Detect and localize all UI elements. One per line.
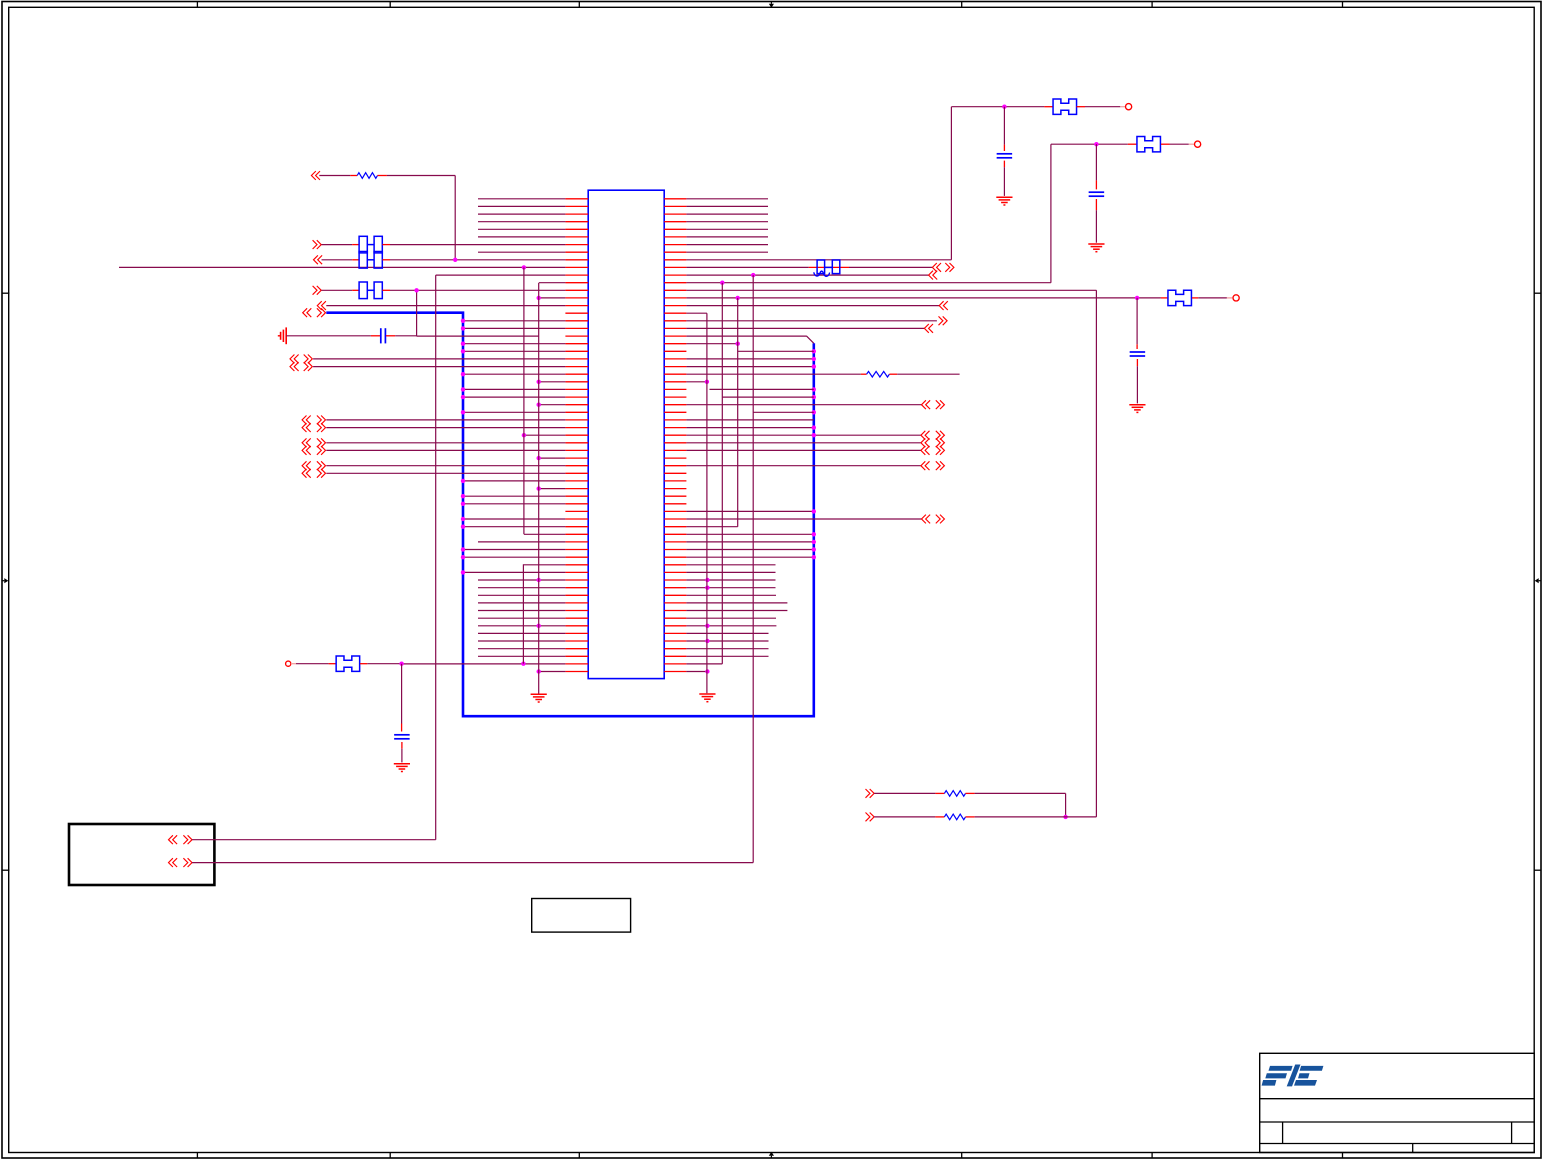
border left center arrow bbox=[2, 580, 4, 582]
border zone ticks top bbox=[196, 2, 198, 9]
ground for C2 bbox=[1088, 243, 1104, 245]
border right center arrow bbox=[1539, 580, 1541, 582]
off-page connector row n10 right bbox=[929, 271, 933, 280]
bus left connector chevron pair bbox=[303, 308, 307, 317]
ground for C1 bbox=[996, 196, 1012, 198]
title block row line 2 bbox=[1260, 1098, 1535, 1100]
wire vertical x523.4 lower bbox=[522, 564, 524, 663]
title block row line 3 bbox=[1260, 1121, 1535, 1123]
right bus junction dots bbox=[812, 349, 816, 353]
ground for C3 bbox=[1129, 404, 1145, 406]
net B output wire and terminal bbox=[1170, 143, 1189, 145]
border zone ticks left bbox=[2, 292, 9, 294]
box row2 wire to riser bbox=[192, 862, 753, 864]
off-page connector cluster rows n21 n22 bbox=[290, 355, 294, 364]
right row n9 wire segments (through beads) bbox=[686, 266, 808, 268]
net B riser x1050.9 bbox=[1050, 144, 1052, 283]
box row1 wire to riser bbox=[192, 839, 436, 841]
bus main thick blue bbox=[326, 313, 814, 717]
junction dots on right verticals mid bbox=[736, 342, 740, 346]
left row n18 wire (cap net) bbox=[417, 335, 539, 337]
ground for C5 bbox=[394, 763, 410, 765]
box port row2 chevrons bbox=[169, 858, 173, 867]
off-page connector row n14 chevron bbox=[317, 301, 321, 310]
border zone ticks bottom bbox=[196, 1153, 198, 1159]
wire vertical x523.9 upper bbox=[523, 267, 525, 534]
off-page connector row n12 bbox=[317, 286, 321, 295]
border bottom center arrow bbox=[770, 1156, 772, 1158]
off-page connector cluster rows n32 n33 bbox=[302, 438, 306, 447]
net B top wire bbox=[1051, 143, 1128, 145]
ferrite bead L2 bbox=[1128, 143, 1137, 145]
net A riser x951.4 bbox=[950, 107, 952, 260]
off-page connector pair row n42 right bbox=[922, 515, 926, 524]
wire vertical x539 (to left ground) bbox=[538, 283, 540, 694]
terminal circle bottom-left bbox=[286, 661, 291, 666]
off-page connector cluster rows n29 n30 bbox=[302, 416, 306, 425]
wire vertical x753.2 (row10 to box row2) bbox=[752, 275, 754, 863]
right vertical x707 dots bbox=[705, 578, 709, 582]
resistor R2 on row n23 bbox=[686, 373, 861, 375]
capacitor C4 series bbox=[380, 328, 382, 343]
off-page connector row n6 bbox=[317, 240, 321, 249]
net C (row n13) bead and terminal bbox=[1135, 296, 1139, 300]
off-page connector bottom right row2 bbox=[870, 813, 874, 822]
right ground symbol bbox=[699, 693, 715, 695]
ferrite bead pair A row n6 bbox=[359, 236, 367, 253]
box port row1 chevrons bbox=[169, 835, 173, 844]
left ground symbol bbox=[531, 693, 547, 695]
hierarchical block box bbox=[69, 824, 214, 885]
off-page connector (resistor net) bbox=[311, 171, 315, 180]
title block cell divider c bbox=[1412, 1144, 1414, 1153]
off-page connector cluster rows n35 n36 bbox=[302, 461, 306, 470]
title block row line 4 bbox=[1260, 1143, 1535, 1145]
bus entry diagonal bbox=[806, 336, 814, 344]
wire vertical x455.2 (resistor to row8) bbox=[454, 176, 456, 260]
title block outline bbox=[1260, 1053, 1535, 1152]
capacitor C1 bbox=[1003, 107, 1005, 145]
FIC logo bbox=[1269, 1066, 1293, 1071]
off-page connector row n17 right bbox=[924, 324, 928, 333]
wires to bead pair A bbox=[322, 244, 353, 246]
chassis ground symbol bbox=[278, 335, 281, 337]
border top center arrow bbox=[770, 2, 772, 4]
wire vertical x1096.4 (row n12 down to resistor net) bbox=[1095, 290, 1097, 817]
ferrite bead L3 bbox=[329, 663, 336, 665]
bead pair A output stubs bbox=[382, 244, 390, 246]
wire chassis to C4 bbox=[286, 335, 371, 337]
right short rows to bus bbox=[738, 350, 814, 352]
off-page connector pair row n27 right bbox=[922, 400, 926, 409]
left mid vertical junction dots x539 bbox=[537, 296, 541, 300]
off-page connector bottom right row1 bbox=[870, 789, 874, 798]
wire vertical x722.3 bbox=[721, 283, 723, 664]
ferrite bead L1 bbox=[1044, 106, 1053, 108]
title block cell divider a bbox=[1282, 1122, 1284, 1144]
right pin row wires bbox=[686, 198, 768, 200]
IC U1 body bbox=[588, 190, 664, 678]
off-page connector pair row n9 right bbox=[932, 263, 936, 272]
left pin row wires bbox=[478, 198, 565, 200]
right verticals top dots bbox=[751, 273, 755, 277]
left bus junction dots bbox=[461, 319, 465, 323]
ferrite bead pair B row n12 bbox=[359, 282, 367, 299]
resistor R3 bbox=[874, 792, 935, 794]
net A top wire bbox=[951, 106, 1044, 108]
wire R3 corner down bbox=[1065, 793, 1067, 817]
common-mode choke on row n9 bbox=[817, 260, 825, 274]
ferrite bead pair A row n8 bbox=[359, 252, 367, 269]
wire vertical x706.9 (to right ground) bbox=[706, 313, 708, 693]
border zone ticks right bbox=[1534, 292, 1541, 294]
wire vertical x416.6 (bead2 to cap) bbox=[416, 290, 418, 336]
wire to bead B bbox=[322, 289, 353, 291]
capacitor C5 bbox=[401, 664, 403, 724]
IC U1 left pin stubs bbox=[565, 198, 588, 200]
IC U1 right pin stubs bbox=[664, 198, 686, 200]
annotation rectangle bbox=[532, 899, 631, 933]
title block cell divider b bbox=[1511, 1122, 1513, 1144]
left vertical x524 dots bbox=[522, 265, 526, 269]
off-page connector row n14 right bbox=[939, 301, 943, 310]
off-page connector row n16 right bbox=[943, 316, 947, 325]
capacitor C2 bbox=[1095, 144, 1097, 180]
resistor R4 bbox=[874, 816, 935, 818]
wire vertical x435.7 (row10 to box) bbox=[435, 275, 437, 840]
off-page connector cluster rows n31-n33 right bbox=[921, 431, 925, 440]
net A output wire and terminal bbox=[1085, 106, 1120, 108]
off-page connector pair row n35 right bbox=[921, 461, 925, 470]
wire vertical x737.7 bbox=[737, 298, 739, 527]
off-page connector row n8 bbox=[314, 255, 318, 264]
resistor R1 top-left bbox=[319, 175, 350, 177]
wire bead L3 to IC row n61 bbox=[367, 663, 401, 665]
capacitor C3 bbox=[1136, 298, 1138, 344]
